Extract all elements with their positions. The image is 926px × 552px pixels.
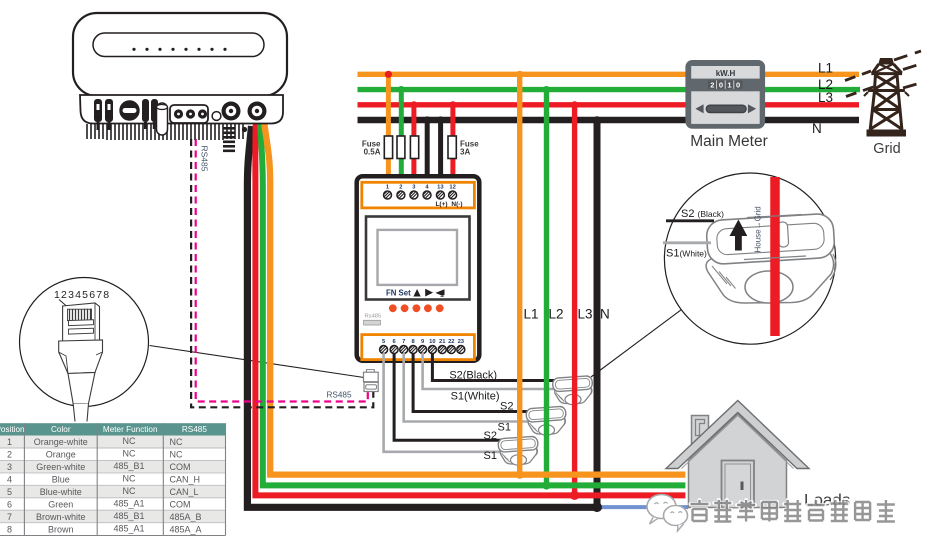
meter inner panel: [366, 217, 470, 300]
label RS485 vertical at inverter: [200, 146, 210, 172]
svg-text:Blue: Blue: [52, 475, 70, 485]
svg-text:485_B1: 485_B1: [113, 511, 144, 521]
wire meter terminal 12 stub (red): [450, 105, 455, 190]
junction dot green bottom: [542, 481, 550, 489]
svg-text:0: 0: [719, 81, 723, 90]
junction dot black terminal4: [424, 116, 431, 123]
svg-text:L(+): L(+): [435, 201, 447, 208]
black lead line in circle: [666, 219, 714, 222]
label L2 mid: [549, 307, 564, 322]
svg-text:L3: L3: [578, 307, 593, 322]
svg-text:NC: NC: [123, 436, 136, 446]
wire L1 vertical (orange): [517, 74, 522, 474]
svg-text:RS485: RS485: [182, 425, 207, 434]
svg-text:485_A1: 485_A1: [113, 499, 144, 509]
svg-text:S1: S1: [498, 422, 511, 434]
watermark wechat logo: [647, 495, 688, 532]
inverter MC4 connectors pair 2: [142, 99, 158, 129]
energy meter frame: [357, 176, 480, 361]
svg-text:7: 7: [402, 339, 405, 345]
CT2 clamp on L2: [526, 406, 566, 435]
wire L1 top horizontal (orange): [358, 72, 860, 77]
svg-text:3: 3: [7, 462, 12, 472]
label S1(White): [451, 391, 500, 403]
meter bottom terminal strip: [362, 335, 475, 360]
svg-text:Meter Function: Meter Function: [103, 425, 158, 434]
RS485 dashed black link: [191, 139, 373, 407]
label RS485 at meter: [327, 391, 352, 400]
inverter heatsink fins: [87, 124, 243, 140]
RJ45 detail circle: [20, 278, 149, 407]
wire L2 vertical (green): [544, 90, 549, 486]
svg-text:NC: NC: [170, 450, 183, 460]
svg-text:485A_A: 485A_A: [170, 524, 202, 534]
label L1 right: [818, 61, 833, 76]
meter top terminal strip: [362, 182, 475, 208]
label L1 mid: [524, 307, 539, 322]
wire meter terminal 3 stub (red): [411, 105, 416, 190]
junction dot orange bottom: [516, 470, 524, 478]
pointer line from CT1 to detail circle: [591, 310, 681, 377]
inverter small round port: [212, 112, 221, 121]
svg-text:10: 10: [429, 339, 435, 345]
svg-text:Brown: Brown: [48, 524, 74, 534]
label N right: [812, 121, 822, 136]
gray lead line in circle: [663, 241, 711, 244]
watermark chinese text (approximated glyphs): [691, 500, 895, 522]
grid power line dashes left: [845, 71, 876, 97]
junction dot red bottom: [570, 491, 579, 500]
svg-text:23: 23: [458, 339, 465, 345]
svg-text:Rs485: Rs485: [365, 314, 382, 320]
fuse F1 0.5A: [384, 136, 392, 159]
label S2 (CT3): [484, 430, 497, 442]
svg-text:COM: COM: [170, 462, 191, 472]
label Fuse 0.5A: [362, 140, 381, 157]
svg-text:485_A1: 485_A1: [113, 523, 144, 533]
RS485 plug at meter: [364, 370, 379, 392]
svg-text:Orange: Orange: [46, 450, 76, 460]
svg-text:13: 13: [437, 185, 444, 191]
svg-text:RS485: RS485: [200, 146, 210, 172]
RJ45 boot and cable: [59, 340, 103, 422]
junction dot red: [410, 101, 417, 108]
wire CT1 S2 black from terminal 10: [432, 353, 556, 381]
wire N vertical (black): [594, 120, 601, 507]
RJ45 plug head: [63, 303, 100, 342]
svg-text:CAN_L: CAN_L: [170, 487, 199, 497]
svg-text:S2(Black): S2(Black): [449, 370, 497, 382]
inverter U1 body: [73, 13, 287, 96]
meter bottom terminal screws: [380, 346, 465, 354]
label Grid: [873, 141, 900, 157]
svg-text:Grid: Grid: [873, 141, 900, 157]
wire L3 vertical (red): [572, 105, 577, 496]
svg-text:L2: L2: [549, 307, 564, 322]
svg-text:21: 21: [439, 339, 446, 345]
wire L3 top horizontal (red): [358, 102, 860, 107]
fuse F2: [397, 136, 405, 159]
svg-text:CAN_H: CAN_H: [170, 475, 201, 485]
svg-text:Main Meter: Main Meter: [690, 133, 768, 150]
svg-text:L1: L1: [818, 61, 833, 76]
house (loads) body: [666, 401, 809, 508]
svg-text:3A: 3A: [460, 148, 470, 157]
svg-text:S2 (Black): S2 (Black): [681, 208, 724, 220]
wire CT2 S1 gray from terminal 7: [404, 353, 529, 422]
svg-text:NC: NC: [123, 486, 136, 496]
wire AC green from inverter to loads: [260, 123, 685, 485]
label House to Grid rotated: [754, 206, 763, 252]
wire CT2 S2 black from terminal 8: [413, 353, 529, 412]
inverter LED dots: [132, 48, 226, 51]
svg-text:8: 8: [7, 524, 12, 534]
svg-text:2: 2: [7, 450, 12, 460]
wire meter terminal 1 stub (orange): [386, 74, 391, 190]
junction dot on orange at terminal1 stub (red): [385, 71, 392, 78]
svg-text:5: 5: [7, 487, 12, 497]
svg-text:0.5A: 0.5A: [364, 148, 381, 157]
wire L2 top horizontal (green): [358, 87, 861, 92]
wire CT3 S1 gray from terminal 5: [384, 353, 501, 452]
label 12345678: [54, 289, 110, 301]
wire CT3 S2 black from terminal 6: [394, 353, 501, 440]
label FN Set: [386, 289, 411, 298]
svg-text:0: 0: [736, 81, 740, 90]
label L3 mid: [578, 307, 593, 322]
detail arrow (energy direction): [730, 220, 748, 251]
inverter bottom panel: [80, 95, 283, 124]
grid tower: [864, 59, 909, 137]
svg-text:22: 22: [448, 339, 454, 345]
inverter AC connector: [248, 102, 267, 121]
CT detail circle: [664, 173, 835, 344]
svg-text:S1: S1: [484, 450, 497, 462]
CT1 clamp on L3: [552, 376, 592, 405]
wire AC black from inverter to N run: [247, 126, 597, 507]
svg-text:1: 1: [727, 81, 731, 90]
inverter MC4 connectors pair 1: [94, 99, 113, 130]
svg-text:12345678: 12345678: [54, 289, 110, 301]
main meter kW.H body: [685, 60, 765, 129]
junction dot red terminal12: [449, 101, 456, 108]
svg-text:L1: L1: [524, 307, 539, 322]
wire N top horizontal (black): [358, 117, 860, 124]
label S1 (White) in circle: [666, 248, 707, 260]
inverter DC switch: [120, 101, 139, 120]
RS485 dashed magenta link: [196, 139, 368, 402]
inverter comm ports block: [170, 105, 208, 123]
svg-text:2: 2: [710, 81, 714, 90]
meter top terminal numbers 1 2 3 4 13 12: [386, 185, 456, 191]
svg-text:Position: Position: [0, 425, 25, 434]
svg-text:2: 2: [399, 185, 402, 191]
inverter vent valve: [157, 103, 168, 135]
svg-text:485_B1: 485_B1: [113, 461, 144, 471]
label Fuse 3A: [460, 140, 479, 157]
wire meter terminal 2 stub (green): [399, 90, 404, 190]
fuse F4 3A: [448, 136, 456, 159]
label Main Meter: [690, 133, 768, 150]
wire N blue to loads: [597, 505, 688, 509]
meter top terminal screws: [384, 191, 457, 199]
CT3 clamp on L1: [498, 436, 538, 465]
svg-text:House→Grid: House→Grid: [754, 206, 763, 252]
svg-text:N: N: [812, 121, 822, 136]
meter bottom terminal numbers 5 6 7 8 9 10 21 22 23: [382, 339, 465, 345]
meter LCD: [378, 230, 458, 285]
label S2 (Black) in circle: [681, 208, 724, 220]
svg-text:4: 4: [7, 475, 12, 485]
wire AC red from inverter to loads: [255, 123, 685, 495]
svg-text:12: 12: [449, 185, 455, 191]
inverter small dot: [242, 127, 247, 132]
svg-text:NC: NC: [170, 437, 183, 447]
svg-text:Orange-white: Orange-white: [34, 437, 88, 447]
label L2 right: [818, 77, 833, 92]
svg-text:6: 6: [7, 500, 12, 510]
svg-text:Color: Color: [51, 425, 71, 434]
meter buttons (triangles): [413, 289, 444, 297]
svg-text:COM: COM: [170, 500, 191, 510]
svg-text:7: 7: [7, 512, 12, 522]
svg-text:L3: L3: [818, 90, 833, 105]
inverter corrugated conduit: [223, 127, 235, 152]
svg-text:1: 1: [7, 437, 12, 447]
grid power line dashes right: [894, 51, 922, 88]
junction dot green: [398, 86, 405, 93]
wire AC orange from inverter to loads: [264, 123, 685, 475]
detail CT clamp body: [706, 213, 836, 303]
svg-text:N(-): N(-): [451, 201, 462, 208]
label S1 (CT2): [498, 422, 511, 434]
RJ45 pin pointer line: [59, 300, 71, 310]
fuse F3: [410, 136, 418, 159]
label N mid: [600, 307, 610, 322]
svg-text:kW.H: kW.H: [716, 69, 736, 78]
label S1 (CT3): [484, 450, 497, 462]
svg-text:S1(White): S1(White): [666, 248, 707, 260]
meter small gray slot: [364, 320, 381, 325]
svg-text:FN Set: FN Set: [386, 289, 411, 298]
svg-text:NC: NC: [123, 449, 136, 459]
wire CT1 S1 gray from terminal 9: [423, 353, 556, 389]
inverter top oval vent: [93, 33, 264, 57]
svg-text:S1(White): S1(White): [451, 391, 500, 403]
label S2(Black): [449, 370, 497, 382]
label L(+) N(-): [435, 201, 462, 208]
pointer line from RJ45 circle to meter RS485 port: [150, 346, 365, 378]
detail CT rim lines over wire: [744, 215, 806, 260]
junction dot black bottom: [592, 502, 602, 512]
wire meter terminal 4 stub (black): [425, 120, 430, 190]
wire meter terminal 13 stub (black): [438, 120, 443, 190]
svg-text:S2: S2: [484, 430, 497, 442]
svg-text:S2: S2: [500, 401, 513, 413]
svg-text:Brown-white: Brown-white: [36, 512, 86, 522]
svg-text:Green-white: Green-white: [36, 462, 85, 472]
svg-text:RS485: RS485: [327, 391, 352, 400]
junction dots top of vertical drops: [516, 71, 601, 124]
junction dot black terminal13: [437, 116, 444, 123]
svg-text:Blue-white: Blue-white: [40, 487, 82, 497]
label Loads: [804, 491, 850, 510]
inverter antenna connector: [222, 102, 241, 121]
label Rs485 small: [365, 314, 382, 320]
svg-text:NC: NC: [123, 474, 136, 484]
meter orange indicator dots: [389, 304, 444, 312]
label L3 right: [818, 90, 833, 105]
svg-text:Green: Green: [48, 500, 73, 510]
detail red wire through CT: [770, 177, 780, 336]
RS485 pinout table: [0, 423, 226, 535]
svg-text:485A_B: 485A_B: [170, 512, 202, 522]
label S2 (CT2): [500, 401, 513, 413]
svg-text:N: N: [600, 307, 610, 322]
